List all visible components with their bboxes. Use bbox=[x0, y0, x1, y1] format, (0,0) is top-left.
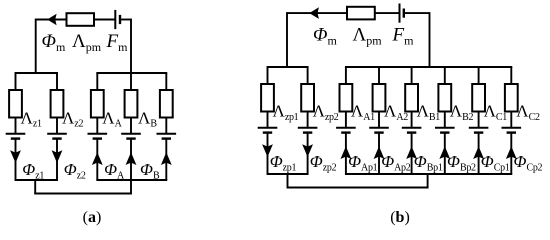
wire return riser left (a) bbox=[34, 180, 36, 194]
svg-text:Φz1: Φz1 bbox=[22, 160, 44, 181]
mmf source F m long plate (b) bbox=[399, 4, 401, 23]
mmf source F m long plate (a) bbox=[114, 10, 116, 29]
mmf source long plate branch z2 bbox=[47, 133, 67, 135]
flux arrow up Φ Ap1 bbox=[341, 146, 352, 159]
mmf source short plate branch A2 bbox=[374, 131, 383, 133]
wire branch z2 stem bbox=[56, 139, 58, 180]
svg-text:Λzp1: Λzp1 bbox=[273, 102, 299, 123]
mmf source short plate branch B2 bbox=[440, 131, 449, 133]
wire branch B top bbox=[130, 73, 132, 91]
wire branch zp2 top bbox=[307, 67, 309, 85]
wire top bar left group (b) bbox=[267, 66, 309, 68]
flux arrow Φ m (b) bbox=[309, 7, 319, 19]
wire branch C2 top bbox=[510, 67, 512, 85]
flux arrow up Φ Bp2 bbox=[439, 146, 450, 159]
flux arrow up Φ B bbox=[126, 152, 137, 165]
wire return horizontal (b) bbox=[287, 187, 429, 189]
svg-text:ΦCp1: ΦCp1 bbox=[481, 152, 510, 173]
wire bottom bus left group (b) bbox=[267, 173, 309, 175]
svg-text:(b): (b) bbox=[390, 209, 410, 226]
mmf source long plate branch A2 bbox=[369, 127, 389, 129]
wire right vertical (a) bbox=[130, 19, 132, 73]
reluctance box Λ zp2 bbox=[301, 84, 314, 112]
wire branch z1 mid bbox=[15, 118, 17, 134]
reluctance box Λ B2 bbox=[438, 84, 451, 112]
wire branch zp1 stem bbox=[267, 133, 269, 174]
wire branch A mid bbox=[96, 118, 98, 134]
wire top bar right group (a) bbox=[96, 72, 167, 74]
wire branch B mid bbox=[130, 118, 132, 134]
wire branch C1 top bbox=[478, 67, 480, 85]
wire top right segment (b) bbox=[404, 12, 430, 14]
wire left vertical (b) bbox=[286, 12, 288, 67]
reluctance box Λ pm (a) bbox=[67, 13, 95, 26]
wire branch A2 stem bbox=[378, 133, 380, 174]
wire branch B2 top bbox=[444, 67, 446, 85]
reluctance box Λ C1 bbox=[472, 84, 485, 112]
wire branch z1 stem bbox=[15, 139, 17, 180]
mmf source F m short plate (b) bbox=[403, 9, 405, 18]
mmf source long plate branch C2 bbox=[502, 127, 522, 129]
mmf source short plate branch B1 bbox=[407, 131, 416, 133]
svg-text:(a): (a) bbox=[83, 209, 102, 226]
wire top left segment (a) bbox=[36, 19, 67, 21]
mmf source short plate branch n4 bbox=[162, 137, 171, 139]
wire branch n4 mid bbox=[165, 118, 167, 134]
flux arrow up Φ n4 bbox=[161, 152, 172, 165]
mmf source long plate branch zp2 bbox=[298, 127, 318, 129]
svg-text:Φm: Φm bbox=[313, 25, 337, 48]
svg-text:ΦCp2: ΦCp2 bbox=[514, 152, 543, 173]
wire branch C1 stem bbox=[478, 133, 480, 174]
svg-text:ΦA: ΦA bbox=[104, 160, 125, 181]
wire branch n4 top bbox=[165, 73, 167, 91]
wire top bar left group (a) bbox=[15, 72, 58, 74]
wire branch zp2 stem bbox=[307, 133, 309, 174]
wire top right segment (a) bbox=[120, 19, 131, 21]
reluctance box Λ A2 bbox=[373, 84, 386, 112]
wire branch C2 stem bbox=[510, 133, 512, 174]
mmf source long plate branch A1 bbox=[336, 127, 356, 129]
wire branch C1 mid bbox=[478, 112, 480, 128]
mmf source short plate branch C1 bbox=[474, 131, 483, 133]
wire branch C2 mid bbox=[510, 112, 512, 128]
svg-text:Φzp2: Φzp2 bbox=[310, 152, 337, 173]
flux arrow up Φ Ap2 bbox=[374, 146, 385, 159]
svg-text:ΦBp1: ΦBp1 bbox=[414, 152, 443, 173]
flux arrow down Φ z2 bbox=[52, 150, 63, 163]
flux arrow up Φ Cp2 bbox=[506, 146, 517, 159]
flux arrow up Φ A bbox=[92, 152, 103, 165]
wire bottom bus right group (a) bbox=[96, 179, 167, 181]
svg-text:ΦB: ΦB bbox=[140, 160, 160, 181]
flux arrow up Φ Bp1 bbox=[406, 146, 417, 159]
wire branch A2 top bbox=[378, 67, 380, 85]
mmf source F m short plate (a) bbox=[119, 15, 121, 24]
mmf source long plate branch A bbox=[88, 133, 108, 135]
wire branch A1 stem bbox=[345, 133, 347, 174]
wire branch z2 top bbox=[56, 73, 58, 91]
wire branch B stem bbox=[130, 139, 132, 180]
reluctance box Λ B1 bbox=[405, 84, 418, 112]
wire branch B1 mid bbox=[411, 112, 413, 128]
mmf source long plate branch B bbox=[121, 133, 141, 135]
reluctance box Λ zp1 bbox=[261, 84, 274, 112]
mmf source short plate branch z1 bbox=[11, 137, 20, 139]
svg-text:ΛC2: ΛC2 bbox=[516, 102, 540, 123]
wire branch A1 top bbox=[345, 67, 347, 85]
wire branch B2 stem bbox=[444, 133, 446, 174]
svg-text:Φm: Φm bbox=[42, 31, 66, 54]
svg-text:Λz2: Λz2 bbox=[62, 108, 83, 129]
wire bottom bus left group (a) bbox=[15, 179, 58, 181]
wire branch A stem bbox=[96, 139, 98, 180]
wire branch z2 mid bbox=[56, 118, 58, 134]
wire return riser right (b) bbox=[427, 174, 429, 188]
mmf source short plate branch A1 bbox=[341, 131, 350, 133]
svg-text:Λpm: Λpm bbox=[72, 31, 102, 54]
mmf source short plate branch zp1 bbox=[263, 131, 272, 133]
svg-text:ΛA: ΛA bbox=[102, 108, 122, 129]
flux arrow down Φ zp2 bbox=[302, 144, 313, 157]
wire branch A1 mid bbox=[345, 112, 347, 128]
reluctance box Λ C2 bbox=[505, 84, 518, 112]
wire right vertical (b) bbox=[429, 12, 431, 67]
svg-text:ΛA1: ΛA1 bbox=[351, 102, 375, 123]
mmf source short plate branch z2 bbox=[52, 137, 61, 139]
svg-text:ΦAp2: ΦAp2 bbox=[381, 152, 411, 173]
mmf source short plate branch B bbox=[126, 137, 135, 139]
wire branch A2 mid bbox=[378, 112, 380, 128]
reluctance box Λ A1 bbox=[340, 84, 353, 112]
wire branch zp1 top bbox=[267, 67, 269, 85]
wire branch B1 stem bbox=[411, 133, 413, 174]
wire top mid segment (b) bbox=[375, 12, 400, 14]
svg-text:Φzp1: Φzp1 bbox=[270, 152, 297, 173]
mmf source long plate branch zp1 bbox=[258, 127, 278, 129]
wire branch B2 mid bbox=[444, 112, 446, 128]
wire return riser right (a) bbox=[130, 180, 132, 194]
mmf source long plate branch C1 bbox=[469, 127, 489, 129]
flux arrow down Φ zp1 bbox=[262, 144, 273, 157]
wire branch B1 top bbox=[411, 67, 413, 85]
svg-text:ΛB2: ΛB2 bbox=[450, 102, 474, 123]
mmf source long plate branch n4 bbox=[157, 133, 177, 135]
wire branch zp1 mid bbox=[267, 112, 269, 128]
svg-text:ΛC1: ΛC1 bbox=[484, 102, 508, 123]
wire top bar right group (b) bbox=[345, 66, 512, 68]
wire branch n4 stem bbox=[165, 139, 167, 180]
flux arrow Φ m (a) bbox=[47, 14, 56, 26]
mmf source short plate branch zp2 bbox=[303, 131, 312, 133]
mmf source short plate branch C2 bbox=[507, 131, 516, 133]
svg-text:ΛB: ΛB bbox=[138, 108, 157, 129]
svg-text:Λz1: Λz1 bbox=[21, 108, 42, 129]
reluctance box Λ B bbox=[125, 90, 138, 118]
wire return horizontal (a) bbox=[34, 193, 132, 195]
svg-text:Fm: Fm bbox=[106, 31, 129, 54]
wire bottom bus right group (b) bbox=[345, 173, 512, 175]
svg-text:Φz2: Φz2 bbox=[64, 160, 86, 181]
mmf source long plate branch B1 bbox=[402, 127, 422, 129]
svg-text:ΛB1: ΛB1 bbox=[417, 102, 441, 123]
wire top mid segment (a) bbox=[94, 19, 115, 21]
svg-text:ΦAp1: ΦAp1 bbox=[348, 152, 378, 173]
reluctance box Λ A bbox=[91, 90, 104, 118]
wire top left segment (b) bbox=[287, 12, 347, 14]
reluctance box Λ z1 bbox=[9, 90, 22, 118]
mmf source long plate branch z1 bbox=[6, 133, 26, 135]
wire branch z1 top bbox=[15, 73, 17, 91]
wire branch zp2 mid bbox=[307, 112, 309, 128]
mmf source short plate branch A bbox=[93, 137, 102, 139]
wire left vertical (a) bbox=[35, 19, 37, 73]
reluctance box Λ z2 bbox=[51, 90, 64, 118]
flux arrow down Φ z1 bbox=[10, 150, 21, 163]
reluctance box (unlabeled 4) bbox=[160, 90, 173, 118]
mmf source long plate branch B2 bbox=[435, 127, 455, 129]
wire branch A top bbox=[96, 73, 98, 91]
wire return riser left (b) bbox=[287, 174, 289, 188]
svg-text:Fm: Fm bbox=[392, 25, 415, 48]
flux arrow up Φ Cp1 bbox=[473, 146, 484, 159]
svg-text:Λpm: Λpm bbox=[353, 25, 383, 48]
svg-text:Λzp2: Λzp2 bbox=[313, 102, 339, 123]
reluctance box Λ pm (b) bbox=[347, 7, 375, 20]
svg-text:ΦBp2: ΦBp2 bbox=[447, 152, 476, 173]
